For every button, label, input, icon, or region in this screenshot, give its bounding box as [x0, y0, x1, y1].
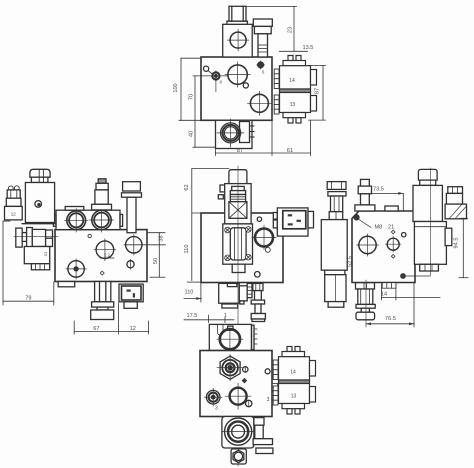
- svg-text:3: 3: [267, 397, 270, 403]
- svg-text:70: 70: [188, 94, 194, 100]
- svg-text:40: 40: [188, 131, 194, 137]
- svg-text:41: 41: [43, 251, 48, 256]
- svg-text:94.5: 94.5: [454, 238, 460, 249]
- svg-text:M8: M8: [375, 225, 383, 231]
- svg-text:79: 79: [25, 296, 31, 302]
- svg-text:23: 23: [288, 27, 294, 33]
- svg-text:52.5: 52.5: [348, 256, 354, 267]
- svg-text:13: 13: [291, 394, 297, 400]
- svg-text:100: 100: [173, 83, 179, 92]
- svg-text:14: 14: [289, 78, 295, 84]
- svg-text:2.2: 2.2: [104, 252, 110, 257]
- svg-text:13.5: 13.5: [303, 45, 314, 51]
- svg-text:110: 110: [185, 290, 194, 296]
- svg-text:110: 110: [184, 245, 190, 254]
- svg-text:67: 67: [93, 326, 99, 332]
- svg-text:12: 12: [11, 211, 17, 216]
- svg-text:76.5: 76.5: [385, 316, 396, 322]
- svg-text:17.5: 17.5: [187, 313, 198, 319]
- svg-text:50: 50: [153, 258, 159, 264]
- svg-text:14: 14: [290, 370, 296, 376]
- svg-text:87: 87: [315, 88, 321, 94]
- svg-text:62: 62: [184, 184, 190, 190]
- svg-text:14: 14: [381, 291, 387, 297]
- svg-text:3: 3: [215, 406, 218, 412]
- svg-text:61: 61: [287, 148, 293, 154]
- svg-text:87: 87: [237, 148, 243, 154]
- svg-text:21: 21: [388, 225, 394, 231]
- svg-text:1: 1: [224, 313, 227, 319]
- svg-text:12: 12: [130, 326, 136, 332]
- svg-text:38: 38: [158, 235, 164, 241]
- svg-text:13: 13: [290, 102, 296, 108]
- svg-text:73.5: 73.5: [373, 187, 384, 193]
